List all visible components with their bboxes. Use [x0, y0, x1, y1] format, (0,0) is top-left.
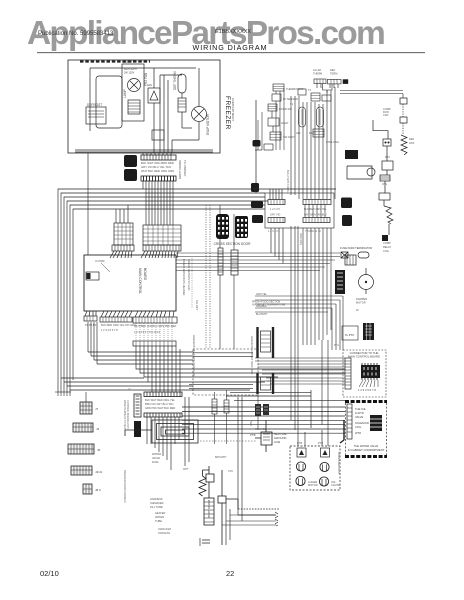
svg-text:THE WATER VALVE: THE WATER VALVE	[354, 444, 379, 448]
svg-text:J2: J2	[128, 388, 131, 391]
svg-text:COMP: COMP	[383, 241, 391, 245]
svg-text:LAMP: LAMP	[123, 89, 127, 98]
svg-text:WHT BRN TAN BLU: WHT BRN TAN BLU	[304, 214, 327, 217]
svg-text:1 2 3 4 5: 1 2 3 4 5	[270, 208, 280, 211]
svg-text:FUSE PARK TERMINATOR: FUSE PARK TERMINATOR	[340, 246, 372, 250]
svg-text:THERM: THERM	[313, 72, 322, 76]
svg-text:DMP: DMP	[309, 131, 315, 135]
svg-text:22: 22	[226, 569, 234, 578]
svg-text:WHT BLK RED ORG GRN: WHT BLK RED ORG GRN	[141, 169, 174, 173]
svg-text:IN CABINET TEMPERATURE: IN CABINET TEMPERATURE	[252, 304, 286, 307]
svg-text:SIG RET: SIG RET	[195, 300, 198, 310]
svg-text:DEF: DEF	[409, 137, 415, 141]
svg-text:PTB: PTB	[297, 441, 302, 445]
svg-text:BLK RED ORG YEL VIO GRY: BLK RED ORG YEL VIO GRY	[101, 323, 136, 327]
svg-text:SOLENOID: SOLENOID	[355, 421, 369, 425]
svg-text:FRZ FAN: FRZ FAN	[144, 72, 148, 86]
svg-text:MOTOR: MOTOR	[308, 483, 318, 487]
svg-text:& WTR: & WTR	[355, 411, 364, 415]
svg-text:DEF: DEF	[330, 68, 336, 72]
svg-text:OVL: OVL	[382, 182, 388, 186]
svg-text:COIL: COIL	[355, 425, 362, 429]
svg-text:DUAL: DUAL	[152, 460, 159, 464]
svg-text:J1 PWR: J1 PWR	[95, 259, 105, 263]
svg-text:2W 120V: 2W 120V	[124, 72, 135, 75]
svg-text:DEF THERM: DEF THERM	[173, 71, 177, 90]
svg-text:J3: J3	[96, 427, 100, 431]
svg-text:GRN/YEL: GRN/YEL	[255, 428, 267, 431]
svg-text:02/10: 02/10	[40, 569, 59, 578]
svg-text:CONTROL BOARD ASSY: CONTROL BOARD ASSY	[126, 400, 129, 429]
svg-text:PTC: PTC	[385, 155, 390, 159]
svg-text:WIRING DIAGRAM: WIRING DIAGRAM	[193, 43, 268, 52]
svg-text:HARNESS: HARNESS	[158, 532, 170, 535]
svg-text:BOARD: BOARD	[143, 268, 147, 281]
svg-text:1 2 3 4 5 6 7 8: 1 2 3 4 5 6 7 8	[358, 388, 376, 392]
svg-text:TUBE: TUBE	[155, 519, 162, 523]
svg-text:HI-LIM: HI-LIM	[313, 68, 321, 72]
svg-text:MAIN CONTROL: MAIN CONTROL	[138, 268, 142, 294]
svg-text:PTC: PTC	[334, 344, 339, 347]
svg-text:Publication No. 5995583413: Publication No. 5995583413	[38, 31, 114, 37]
svg-text:BRN/WHT: BRN/WHT	[215, 456, 227, 459]
svg-text:FILL TUBE: FILL TUBE	[150, 505, 163, 509]
svg-text:J4/J1: J4/J1	[95, 470, 103, 474]
svg-text:TAN: TAN	[228, 470, 233, 473]
svg-text:ORG GRN: ORG GRN	[299, 233, 302, 245]
svg-text:GRY/YEL: GRY/YEL	[256, 293, 267, 296]
svg-text:GRY VIO: GRY VIO	[270, 214, 280, 217]
svg-text:MAIN CONTROL BOARD: MAIN CONTROL BOARD	[348, 355, 380, 359]
svg-text:FREEZER: FREEZER	[224, 96, 231, 130]
svg-text:ICEMAKER: ICEMAKER	[150, 501, 164, 505]
svg-text:HARNESS CABINET MAIN PWR: HARNESS CABINET MAIN PWR	[250, 336, 254, 375]
svg-text:LIGHT: LIGHT	[281, 121, 289, 125]
svg-text:HARNESS FRZ DOOR SIGNAL RET: HARNESS FRZ DOOR SIGNAL RET	[192, 335, 196, 378]
svg-text:PWR: PWR	[249, 420, 252, 426]
svg-text:CROSS SECTION DOOR: CROSS SECTION DOOR	[214, 242, 252, 246]
svg-text:LINE: LINE	[274, 440, 280, 444]
svg-text:WHT BRN TAN BLU GRN PNK RED: WHT BRN TAN BLU GRN PNK RED	[134, 324, 176, 328]
svg-text:SW ASSY: SW ASSY	[283, 135, 295, 139]
svg-text:WATER: WATER	[155, 515, 164, 519]
svg-text:BLK-2 WHT-3 RED-4: BLK-2 WHT-3 RED-4	[286, 170, 289, 194]
svg-text:CAP: CAP	[383, 113, 389, 117]
svg-text:ICEMAKER: ICEMAKER	[158, 528, 171, 531]
svg-text:WATER VALVE: WATER VALVE	[207, 500, 211, 518]
svg-text:WIRE HARNESS TO MAIN: WIRE HARNESS TO MAIN	[123, 400, 126, 431]
svg-text:WHT: WHT	[183, 468, 189, 471]
svg-text:HEATER: HEATER	[155, 511, 165, 515]
svg-text:FF SENSOR: FF SENSOR	[283, 97, 298, 101]
svg-text:IN CABINET COMPARTMENT: IN CABINET COMPARTMENT	[348, 448, 385, 452]
svg-text:WATER: WATER	[152, 452, 161, 456]
svg-text:7 8 9 10 11 12: 7 8 9 10 11 12	[305, 230, 321, 233]
svg-text:LIGHT: LIGHT	[123, 60, 132, 64]
svg-text:HTR: HTR	[409, 141, 414, 145]
svg-text:MOTOR: MOTOR	[356, 301, 366, 305]
svg-text:T1: T1	[290, 102, 294, 106]
svg-text:T2: T2	[308, 88, 312, 92]
svg-text:DOOR SW: DOOR SW	[279, 107, 292, 111]
svg-text:TERM: TERM	[330, 72, 337, 76]
svg-text:FREEZER DOOR HARNESS: FREEZER DOOR HARNESS	[123, 470, 126, 503]
svg-text:VALVE: VALVE	[152, 456, 160, 460]
svg-text:DAMPER: DAMPER	[356, 297, 367, 301]
svg-text:VALVE: VALVE	[355, 415, 363, 419]
svg-text:J5: J5	[97, 448, 101, 452]
svg-text:PTB: PTB	[318, 441, 323, 445]
svg-text:GRN PNK WHT BLK RED: GRN PNK WHT BLK RED	[145, 406, 175, 410]
svg-text:BRN VIO GRY BLU TAN: BRN VIO GRY BLU TAN	[145, 402, 173, 406]
svg-text:DISPENSER ASSY: DISPENSER ASSY	[337, 452, 341, 475]
svg-text:To PTC: To PTC	[345, 333, 354, 337]
svg-text:EVAP MOTOR: EVAP MOTOR	[206, 113, 210, 135]
svg-text:HARNESS: HARNESS	[150, 497, 163, 501]
svg-text:1 2 3 4 5 6 7 8 9 10 11: 1 2 3 4 5 6 7 8 9 10 11	[134, 330, 160, 334]
svg-text:PTB: PTB	[250, 433, 256, 437]
svg-text:1 2 3 4 5 6 7 8: 1 2 3 4 5 6 7 8	[101, 328, 118, 332]
svg-text:J7: J7	[95, 407, 99, 411]
svg-text:E1BBXXXXXX: E1BBXXXXXX	[215, 29, 251, 35]
svg-text:RELAY: RELAY	[383, 245, 392, 249]
svg-text:WTR: WTR	[355, 431, 361, 435]
svg-text:BOARD EXPANSION HEADER: BOARD EXPANSION HEADER	[182, 259, 186, 296]
svg-text:AIR: AIR	[296, 131, 300, 135]
svg-text:COMPARTMENT: COMPARTMENT	[231, 98, 235, 121]
svg-text:J8 C: J8 C	[95, 488, 102, 492]
svg-text:1 2 3 4 5 6: 1 2 3 4 5 6	[268, 230, 280, 233]
svg-text:DEFROST: DEFROST	[87, 103, 102, 107]
svg-text:CTRL HSG: CTRL HSG	[326, 140, 339, 144]
svg-text:TO CABINET: TO CABINET	[183, 160, 187, 177]
svg-text:THERMOSTAT: THERMOSTAT	[286, 87, 304, 91]
svg-text:BLK WHT RED ORG YEL: BLK WHT RED ORG YEL	[145, 398, 175, 402]
svg-text:BLK RED ORG YEL: BLK RED ORG YEL	[304, 208, 327, 211]
svg-text:BLU/WHT: BLU/WHT	[256, 313, 268, 316]
svg-text:FF: FF	[356, 309, 360, 312]
svg-text:WIRING HARN: WIRING HARN	[178, 160, 182, 179]
svg-text:CHUTE: CHUTE	[331, 483, 340, 487]
svg-text:THE ICE: THE ICE	[355, 407, 366, 411]
svg-text:COIL: COIL	[383, 249, 390, 253]
